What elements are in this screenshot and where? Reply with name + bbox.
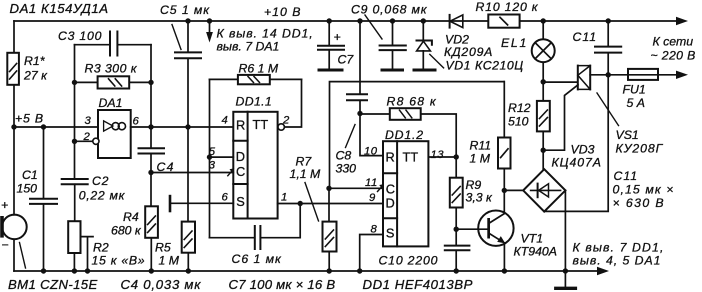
svg-text:1: 1: [281, 192, 288, 204]
svg-text:9: 9: [369, 192, 376, 204]
svg-text:× 630 В: × 630 В: [613, 196, 666, 210]
label C9 0,068 мк: [351, 3, 428, 17]
microphone BM1: [0, 215, 27, 240]
label R6 1 М: [239, 62, 279, 76]
junction DD1.1 pin3 net: [148, 170, 153, 175]
ground C9: [382, 69, 403, 72]
resistor R2 potentiometer: [68, 221, 93, 271]
wire DD1.2 pin13 output: [428, 156, 456, 158]
triac VS1: [578, 66, 590, 90]
svg-text:C: C: [236, 164, 245, 179]
svg-text:4: 4: [222, 115, 229, 127]
svg-text:D: D: [236, 149, 245, 164]
junction pin13 R8 R9: [454, 154, 459, 159]
pin 6 label: [133, 116, 140, 128]
junction C6 right: [298, 201, 303, 206]
junction DD1.2 C input net: [326, 186, 331, 191]
junction VT1 emitter bus: [502, 268, 507, 273]
pin 2 label: [83, 131, 91, 143]
fuse FU1: [628, 69, 658, 80]
wire BM1 branch: [13, 127, 15, 271]
label R1* 27 к: [23, 54, 48, 83]
resistor R6: [210, 75, 302, 84]
capacitor C5: [175, 52, 201, 58]
zener diode VD1: [417, 21, 432, 69]
label DD1.1 R cell: [236, 118, 245, 133]
wire R6 right to DD1.1 pin2: [285, 79, 302, 127]
wire R6 C6 D-net vertical: [209, 79, 211, 237]
label DA1 infinity: [112, 123, 126, 130]
wire VD1 label pointer: [430, 54, 444, 68]
svg-text:+: +: [334, 30, 341, 44]
junction D input net: [207, 154, 212, 159]
label DD1.2 D cell: [386, 196, 395, 211]
wire C5 R5 vertical: [187, 21, 189, 271]
svg-text:C5 1 мк: C5 1 мк: [160, 3, 210, 17]
label DD1.1 TT: [253, 117, 269, 132]
svg-text:DA1 К154УД1А: DA1 К154УД1А: [10, 1, 109, 16]
label VD3 КЦ407А: [552, 143, 602, 170]
svg-text:КЦ407А: КЦ407А: [552, 156, 602, 170]
label DD1.1 C cell: [236, 164, 245, 179]
svg-text:К сети: К сети: [653, 35, 694, 49]
junction R12 gate bridge: [541, 148, 546, 153]
junction VD1 at bus: [421, 18, 426, 23]
junction EL1 R12 MT1: [541, 79, 546, 84]
wire C3 feedback loop top: [75, 44, 152, 46]
label DD1 HEF4013BP: [363, 277, 474, 292]
pin 2 label DD1.1: [282, 115, 290, 127]
svg-text:0,15 мк ×: 0,15 мк ×: [613, 183, 675, 197]
label DD1.1: [236, 95, 273, 109]
label C3 100: [58, 29, 102, 43]
svg-text:BM1 CZN-15E: BM1 CZN-15E: [8, 277, 98, 292]
svg-text:C2: C2: [92, 174, 109, 188]
label R3 300 к: [85, 62, 138, 76]
svg-text:R6 1 М: R6 1 М: [239, 62, 279, 76]
svg-text:C6 1 мк: C6 1 мк: [232, 252, 283, 266]
resistor R4: [145, 206, 158, 238]
svg-text:C3 100: C3 100: [58, 29, 102, 43]
label DD1.2 TT: [403, 150, 419, 165]
label C2 0,22 мк: [79, 174, 126, 203]
svg-text:+10 В: +10 В: [264, 5, 301, 19]
junction C5 top: [185, 18, 190, 23]
wire BM1 label pointer: [20, 243, 26, 269]
svg-text:C10 2200: C10 2200: [379, 254, 439, 268]
resistor R10: [488, 15, 519, 28]
node ground bus arrow: [565, 270, 598, 272]
wire C8 label pointer: [346, 125, 356, 148]
wire EL1 to R12 junction: [542, 62, 544, 101]
svg-text:R2: R2: [93, 241, 109, 255]
capacitor C2: [62, 179, 88, 221]
wire C8 branch from bus: [359, 21, 361, 113]
svg-text:C: C: [386, 182, 395, 197]
ground main symbol: [556, 271, 576, 288]
node lower mains arrow: [676, 71, 688, 79]
capacitor C1: [30, 127, 57, 271]
label DD1.2 C cell: [386, 182, 395, 197]
flip-flop DD1.1: [233, 112, 277, 219]
wire R7 label pointer: [305, 183, 319, 222]
svg-text:VS1: VS1: [616, 128, 639, 142]
svg-text:1,1 М: 1,1 М: [290, 167, 322, 181]
label R5 1 М: [155, 241, 180, 268]
wire R1 branch from bus: [13, 21, 15, 127]
svg-text:C1: C1: [22, 168, 38, 182]
label R8 68 к: [387, 95, 437, 109]
pin 8 label: [371, 224, 378, 236]
op-amp DA1: [98, 110, 131, 158]
label C4: [157, 160, 175, 174]
svg-text:680 к: 680 к: [111, 224, 142, 238]
label BM1 minus: [1, 238, 8, 252]
label R9 3,3 к: [466, 178, 494, 205]
resistor R8: [360, 108, 456, 157]
svg-text:VT1: VT1: [521, 232, 544, 246]
svg-text:C7: C7: [338, 53, 355, 67]
svg-text:15 к «В»: 15 к «В»: [92, 254, 146, 268]
svg-text:TT: TT: [403, 150, 419, 165]
svg-text:К выв. 14 DD1,: К выв. 14 DD1,: [217, 27, 314, 41]
label К сети 220 В: [651, 35, 696, 63]
svg-text:КУ208Г: КУ208Г: [616, 142, 664, 156]
label title DA1 К154УД1А: [10, 1, 109, 16]
wire triac gate: [543, 85, 578, 150]
junction C1 tap: [41, 124, 46, 129]
capacitor C6: [210, 204, 301, 250]
label DD1.2 S cell: [386, 226, 395, 241]
junction ground node: [563, 268, 568, 273]
node power arrow to DD1 DA1 supply pins: [209, 21, 211, 34]
svg-text:DD1 HEF4013BP: DD1 HEF4013BP: [363, 277, 474, 292]
wire R11 link horizontal: [330, 82, 505, 189]
label +10 В: [264, 5, 301, 19]
label R4 680 к: [111, 210, 142, 238]
junction R3 right: [148, 80, 153, 85]
label C6 1 мк: [232, 252, 283, 266]
wire DD1.2 pin8 S to ground bus: [360, 235, 383, 272]
ground VD1: [414, 69, 435, 72]
pin 10 label: [364, 146, 378, 158]
label C4 0,033 мк: [121, 277, 202, 292]
junction R4 bus: [149, 268, 154, 273]
svg-text:−: −: [1, 238, 8, 252]
pin 3 label: [85, 115, 92, 127]
svg-text:510: 510: [508, 115, 529, 129]
wire DD1.1 pin5 D input: [210, 156, 234, 158]
pin 13 label: [431, 149, 445, 161]
junction R2 bottom bus: [72, 268, 77, 273]
wire ground bus bottom: [14, 270, 565, 272]
pin 3 label DD1.1: [209, 160, 216, 172]
wire DD1.1 pin6 S input: [171, 202, 233, 204]
junction EL1 at bus: [541, 18, 546, 23]
junction C10 bus: [454, 268, 459, 273]
wire loop left vertical to pin2: [74, 45, 76, 179]
junction R9 C10 VT1 base: [454, 227, 459, 232]
wire C4 R4 vertical: [150, 154, 152, 272]
svg-text:R5: R5: [155, 241, 171, 255]
label C11 value 0,15 мк 630 В: [613, 169, 675, 210]
svg-text:VD3: VD3: [571, 143, 595, 157]
svg-text:27 к: 27 к: [23, 69, 48, 83]
diode VD2: [450, 15, 463, 28]
wire bridge right corner down: [564, 190, 566, 271]
resistor R1: [7, 53, 19, 85]
label DD1.1 S cell: [236, 194, 245, 209]
resistor R7: [323, 188, 337, 271]
wire DD1.1 pin2 output circle: [278, 124, 284, 130]
node DD1.2 C dynamic input mark: [378, 184, 385, 191]
svg-text:6: 6: [133, 116, 140, 128]
svg-text:R12: R12: [508, 101, 531, 115]
svg-text:FU1: FU1: [623, 83, 646, 97]
svg-text:R: R: [236, 118, 245, 133]
junction DA1 pin2: [72, 139, 77, 144]
pin 11 label: [365, 177, 378, 189]
svg-text:КД209А: КД209А: [444, 45, 493, 59]
wire C9 label pointer: [365, 15, 382, 39]
label К выв. 14 DD1, выв. 7 DA1: [217, 27, 314, 54]
flip-flop DD1.2: [383, 141, 428, 246]
label DD1.1 D cell: [236, 149, 245, 164]
label C7 100 мк 16 В: [229, 277, 336, 292]
label FU1 5 А: [623, 83, 646, 111]
label C10 2200: [379, 254, 439, 268]
svg-text:КТ940А: КТ940А: [514, 245, 557, 259]
svg-text:R8 68 к: R8 68 к: [387, 95, 437, 109]
node DD1.1 C dynamic input mark: [228, 168, 235, 175]
wire DD1.1 pin1 to DD1.2 pin9: [278, 203, 383, 205]
label EL1: [501, 36, 528, 50]
svg-text:C11: C11: [614, 169, 639, 183]
svg-text:C11: C11: [573, 30, 598, 44]
svg-text:3,3 к: 3,3 к: [466, 191, 494, 205]
svg-text:1 М: 1 М: [470, 152, 491, 166]
label DA1: [99, 96, 123, 110]
svg-text:S: S: [386, 226, 395, 241]
label BM1 CZN-15E: [8, 277, 98, 292]
label C11: [573, 30, 598, 44]
wire +5V line to DA1 pin3: [14, 126, 98, 128]
svg-text:R4: R4: [123, 210, 139, 224]
pin 9 label: [369, 192, 376, 204]
svg-text:R10 120 к: R10 120 к: [476, 0, 539, 14]
junction R7 bus: [327, 268, 332, 273]
resistor R3: [75, 76, 152, 88]
svg-text:DD1.2: DD1.2: [385, 128, 424, 142]
svg-text:150: 150: [17, 182, 38, 196]
bridge rectifier VD3: [523, 169, 565, 211]
svg-text:выв. 7 DA1: выв. 7 DA1: [217, 40, 280, 54]
label DD1.2 R cell: [386, 150, 395, 165]
label BM1 plus: [1, 198, 8, 212]
svg-text:выв. 4, 5 DA1: выв. 4, 5 DA1: [573, 254, 662, 268]
capacitor C10: [445, 229, 470, 271]
svg-text:R1*: R1*: [24, 54, 46, 68]
wire C5 label pointer: [172, 25, 181, 50]
svg-text:C4 0,033 мк: C4 0,033 мк: [121, 277, 202, 292]
label К выв. 7 DD1 выв. 4 5 DA1: [573, 241, 665, 268]
svg-text:C9 0,068 мк: C9 0,068 мк: [351, 3, 428, 17]
label R11 1 М: [470, 139, 492, 166]
capacitor C9: [380, 21, 406, 69]
label C1 150: [17, 168, 38, 196]
junction +5V/R1/BM1: [11, 124, 16, 129]
svg-text:13: 13: [431, 149, 445, 161]
wire lower mains line: [590, 74, 677, 76]
transistor VT1: [456, 190, 513, 271]
svg-text:5: 5: [209, 146, 216, 158]
svg-text:+5 В: +5 В: [15, 112, 44, 126]
label DD1.2: [385, 128, 424, 142]
junction R3 left: [72, 80, 77, 85]
node S input stub bar: [169, 195, 172, 213]
capacitor C4: [139, 148, 165, 153]
svg-text:EL1: EL1: [501, 36, 528, 50]
resistor R12: [537, 101, 550, 169]
label R2 15 к «В»: [92, 241, 146, 268]
capacitor C11: [595, 21, 621, 75]
label R12 510: [508, 101, 531, 129]
resistor R11: [498, 82, 511, 191]
junction C1 bus: [41, 268, 46, 273]
svg-text:D: D: [386, 196, 395, 211]
svg-text:DA1: DA1: [99, 96, 123, 110]
svg-text:R3 300 к: R3 300 к: [85, 62, 138, 76]
svg-text:11: 11: [365, 177, 378, 189]
wire DD1.1 pin3 C input: [151, 172, 233, 174]
junction C9 at bus: [390, 18, 395, 23]
label C7: [338, 53, 355, 67]
junction R2 wiper bus: [85, 268, 90, 273]
resistor R5: [182, 222, 195, 253]
svg-text:3: 3: [85, 115, 92, 127]
label R7 1,1 М: [290, 155, 322, 182]
capacitor C7: [318, 21, 344, 69]
svg-text:~ 220 В: ~ 220 В: [651, 49, 696, 63]
junction C11 mains lower: [606, 72, 611, 77]
junction DA1 pin6: [148, 124, 153, 129]
svg-text:0,22 мк: 0,22 мк: [79, 189, 126, 203]
label VD2 КД209А: [444, 33, 493, 60]
label R10 120 к: [476, 0, 539, 14]
node +5V label: [15, 112, 44, 126]
junction C8 R8 pin10: [357, 111, 362, 116]
resistor R9: [450, 157, 463, 229]
junction pin8 bus: [357, 268, 362, 273]
svg-text:1 М: 1 М: [159, 254, 180, 268]
junction C11 at top bus: [606, 18, 611, 23]
pin 1 label DD1.1: [281, 192, 288, 204]
pin 4 label: [222, 115, 229, 127]
svg-text:C7 100 мк × 16 В: C7 100 мк × 16 В: [229, 277, 336, 292]
svg-text:330: 330: [336, 162, 357, 176]
svg-text:R: R: [386, 150, 395, 165]
pin 6 label DD1.1: [222, 192, 229, 204]
ground C7: [319, 69, 342, 72]
wire DA1 pin6 to DD1.1 R pin4: [131, 126, 234, 128]
wire VS1 label pointer: [597, 93, 619, 126]
lamp EL1: [532, 21, 555, 62]
label VT1 КТ940А: [514, 232, 557, 259]
label C8 330: [336, 149, 357, 176]
junction C7 at bus: [327, 18, 332, 23]
junction R11 VT1 collector: [502, 188, 507, 193]
svg-text:R11: R11: [470, 139, 492, 153]
label C7 polarity plus: [334, 30, 341, 44]
wire DA1 pin2 with inversion circle: [75, 138, 100, 144]
capacitor C3: [110, 32, 117, 56]
wire DD1.2 pin11 C input: [329, 187, 383, 189]
junction DA1 out / C5R5: [185, 124, 190, 129]
junction arrow tap: [207, 18, 212, 23]
svg-text:6: 6: [222, 192, 229, 204]
svg-text:+: +: [1, 198, 8, 212]
svg-text:К выв. 7 DD1,: К выв. 7 DD1,: [573, 241, 665, 255]
wire loop right vertical: [150, 45, 152, 148]
svg-text:DD1.1: DD1.1: [236, 95, 273, 109]
junction R5 bus: [186, 268, 191, 273]
svg-text:C8: C8: [336, 149, 352, 163]
svg-text:3: 3: [209, 160, 216, 172]
label C5 1 мк: [160, 3, 210, 17]
label VD1 КС210Ц: [446, 59, 524, 73]
svg-text:10: 10: [364, 146, 378, 158]
wire mains return vertical: [544, 75, 608, 212]
pin 5 label: [209, 146, 216, 158]
wire triac MT1: [543, 81, 577, 83]
svg-text:S: S: [236, 194, 245, 209]
node top bus arrow to mains: [676, 17, 688, 25]
svg-text:TT: TT: [253, 117, 269, 132]
junction C8 top at bus: [357, 18, 362, 23]
label VS1 КУ208Г: [616, 128, 664, 156]
wire +10V top bus: [14, 20, 677, 22]
svg-text:5 А: 5 А: [627, 96, 645, 110]
wire DD1.2 pin10 R input: [360, 114, 383, 156]
wire bridge left to R11 VT1: [504, 189, 523, 191]
capacitor C8: [347, 94, 367, 100]
svg-text:VD1 КС210Ц: VD1 КС210Ц: [446, 59, 524, 73]
